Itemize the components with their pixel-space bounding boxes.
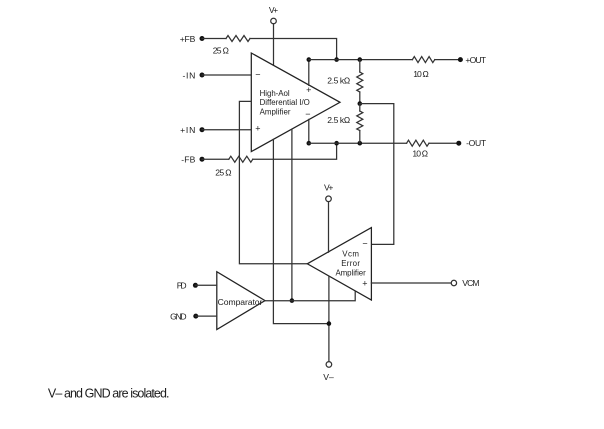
pin label minus output (U1) bbox=[305, 109, 310, 119]
node -FB terminal bbox=[200, 157, 205, 162]
node -FB label bbox=[181, 155, 195, 165]
wire amplifier V- supply drop bbox=[273, 139, 329, 323]
svg-text:High-Aol: High-Aol bbox=[260, 89, 290, 98]
svg-text:-OUT: -OUT bbox=[466, 138, 487, 148]
junction divider midpoint bbox=[358, 101, 363, 106]
svg-text:−: − bbox=[362, 239, 367, 249]
node PD label bbox=[177, 281, 187, 291]
node -IN terminal bbox=[200, 73, 205, 78]
node PD terminal bbox=[193, 283, 198, 288]
node -OUT label bbox=[466, 138, 487, 148]
resistor 10 ohm (+OUT) bbox=[412, 57, 434, 63]
pin label minus input (U1) bbox=[255, 70, 260, 80]
node -OUT terminal bbox=[456, 141, 461, 146]
wire plus output to top rail bbox=[308, 60, 310, 86]
wire 10 ohm to +OUT bbox=[435, 59, 461, 61]
node V- terminal bbox=[326, 362, 332, 368]
resistor 25 ohm (-FB) bbox=[229, 156, 253, 162]
node V+ mid terminal bbox=[326, 196, 332, 202]
op-amp U1 High-Aol Differential I/O Amplifier bbox=[251, 53, 340, 152]
svg-text:VCM: VCM bbox=[462, 278, 479, 288]
svg-text:V– and GND are isolated.: V– and GND are isolated. bbox=[48, 387, 170, 401]
label U2 line3 Amplifier bbox=[335, 268, 366, 277]
svg-text:Comparator: Comparator bbox=[218, 297, 263, 307]
resistor 2.5 kohm upper bbox=[357, 60, 363, 104]
svg-text:2.5 kΩ: 2.5 kΩ bbox=[327, 115, 350, 125]
pin label minus input (U2) bbox=[362, 239, 367, 249]
junction +FB/top rail bbox=[334, 57, 339, 62]
resistor 25 ohm (+FB) bbox=[226, 36, 250, 42]
svg-text:+: + bbox=[255, 124, 260, 134]
svg-text:+IN: +IN bbox=[180, 125, 195, 135]
node -IN label bbox=[183, 70, 196, 80]
wire +FB to resistor bbox=[202, 38, 226, 40]
wire Vcm amp V- supply bbox=[328, 276, 330, 361]
node GND label bbox=[170, 311, 187, 321]
node +FB label bbox=[180, 34, 196, 44]
svg-text:-FB: -FB bbox=[181, 155, 195, 165]
svg-text:−: − bbox=[305, 109, 310, 119]
svg-text:+FB: +FB bbox=[180, 34, 196, 44]
svg-text:+: + bbox=[362, 279, 367, 289]
note V- and GND are isolated bbox=[48, 387, 170, 401]
wire 10 ohm to -OUT bbox=[429, 142, 459, 144]
value label 25 ohm (+FB) bbox=[213, 46, 230, 56]
value label 10 ohm (+OUT) bbox=[413, 69, 429, 79]
svg-text:25 Ω: 25 Ω bbox=[213, 46, 230, 56]
node VCM label bbox=[462, 278, 479, 288]
svg-text:Error: Error bbox=[341, 259, 360, 268]
op-amp U2 Vcm Error Amplifier bbox=[307, 228, 371, 300]
svg-text:10 Ω: 10 Ω bbox=[413, 69, 429, 79]
node +FB terminal bbox=[200, 36, 205, 41]
svg-text:2.5 kΩ: 2.5 kΩ bbox=[327, 76, 350, 86]
svg-text:V+: V+ bbox=[269, 5, 278, 15]
wire -FB to resistor bbox=[202, 158, 229, 160]
label U1 line2 Differential I/O bbox=[260, 98, 310, 107]
wire V+ to amplifier top edge bbox=[273, 24, 275, 66]
svg-text:V+: V+ bbox=[324, 183, 333, 193]
wire Vcm amp plus input to VCM bbox=[371, 282, 451, 284]
junction bottom rail left bbox=[307, 141, 312, 146]
pin label plus input (U2) bbox=[362, 279, 367, 289]
resistor 2.5 kohm lower bbox=[357, 104, 363, 144]
wire -FB resistor to feedback corner bbox=[253, 143, 337, 159]
wire V+ mid to Vcm amp bbox=[328, 202, 330, 253]
svg-text:V–: V– bbox=[323, 372, 334, 382]
node +IN label bbox=[180, 125, 195, 135]
comparator U3 bbox=[217, 272, 265, 330]
label U2 line2 Error bbox=[341, 259, 360, 268]
label U2 line1 Vcm bbox=[342, 249, 359, 258]
svg-text:25 Ω: 25 Ω bbox=[215, 167, 232, 177]
value label 2.5 kohm upper bbox=[327, 76, 350, 86]
node VCM terminal bbox=[451, 280, 456, 285]
svg-text:Vcm: Vcm bbox=[342, 249, 359, 258]
value label 2.5 kohm lower bbox=[327, 115, 350, 125]
label U1 line1 High-Aol bbox=[260, 89, 290, 98]
node V+ top terminal bbox=[271, 18, 277, 24]
wire +IN to amplifier bbox=[202, 129, 251, 131]
node +IN terminal bbox=[200, 127, 205, 132]
svg-text:+OUT: +OUT bbox=[465, 55, 486, 65]
pin label plus output (U1) bbox=[306, 85, 311, 95]
wire top rail bbox=[309, 59, 413, 61]
node +OUT terminal bbox=[458, 57, 463, 62]
wire divider midpoint to Vcm amp minus input bbox=[360, 104, 394, 245]
svg-text:+: + bbox=[306, 85, 311, 95]
junction V- rail bbox=[327, 321, 332, 326]
wire GND to comparator bbox=[196, 315, 217, 317]
resistor 10 ohm (-OUT) bbox=[407, 140, 429, 146]
wire -IN to amplifier bbox=[202, 74, 251, 76]
junction top rail left bbox=[307, 57, 312, 62]
node V+ top label bbox=[269, 5, 278, 15]
value label 25 ohm (-FB) bbox=[215, 167, 232, 177]
wire minus output to bottom rail bbox=[308, 119, 310, 143]
label U3 Comparator bbox=[218, 297, 263, 307]
wire amplifier enable drop bbox=[291, 129, 293, 301]
node V- label bbox=[323, 372, 334, 382]
pin label plus input (U1) bbox=[255, 124, 260, 134]
node GND terminal bbox=[193, 314, 198, 319]
svg-text:-IN: -IN bbox=[183, 70, 196, 80]
junction enable/comparator output bbox=[290, 298, 295, 303]
wire comparator output bbox=[265, 292, 355, 301]
junction bottom rail divider tap bbox=[358, 141, 363, 146]
wire PD to comparator bbox=[195, 284, 216, 286]
svg-text:GND: GND bbox=[170, 311, 187, 321]
svg-text:10 Ω: 10 Ω bbox=[412, 148, 428, 158]
node +OUT label bbox=[465, 55, 486, 65]
svg-text:Differential I/O: Differential I/O bbox=[260, 98, 310, 107]
svg-text:−: − bbox=[255, 70, 260, 80]
svg-text:Amplifier: Amplifier bbox=[335, 268, 366, 277]
wire bottom rail bbox=[309, 142, 407, 144]
value label 10 ohm (-OUT) bbox=[412, 148, 428, 158]
junction top rail divider tap bbox=[358, 57, 363, 62]
label U1 line3 Amplifier bbox=[260, 108, 291, 117]
wire +FB resistor to feedback corner bbox=[250, 39, 337, 60]
wire Vcm output feedback to amplifier bbox=[239, 101, 307, 263]
node V+ mid label bbox=[324, 183, 333, 193]
svg-text:PD: PD bbox=[177, 281, 187, 291]
svg-text:Amplifier: Amplifier bbox=[260, 108, 291, 117]
junction -FB/bottom rail bbox=[334, 141, 339, 146]
